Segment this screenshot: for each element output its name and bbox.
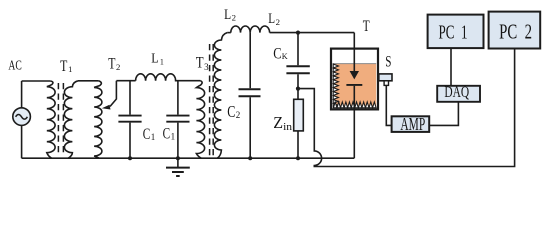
svg-text:AC: AC (8, 58, 21, 73)
AC source symbol (13, 108, 31, 126)
label L2 (first) (224, 7, 236, 23)
sensor S on chamber wall (379, 74, 392, 86)
amplifier AMP box (392, 114, 430, 134)
svg-text:PC 1: PC 1 (439, 22, 468, 44)
label T1 (60, 58, 72, 75)
svg-text:L: L (268, 11, 275, 27)
chamber T bottom heater zigzag (333, 102, 376, 108)
svg-text:T: T (60, 58, 68, 75)
svg-text:C: C (273, 45, 281, 62)
node: top rail junction (296, 30, 300, 34)
label L1 (151, 52, 164, 67)
transformer T3 primary winding (196, 81, 204, 159)
svg-text:1: 1 (160, 58, 164, 67)
capacitor C2 (239, 33, 261, 161)
svg-text:S: S (385, 53, 391, 70)
inductor L2 (first) (231, 26, 250, 33)
svg-text:L: L (151, 52, 158, 67)
ground symbol (166, 158, 190, 176)
transformer T1 primary winding (47, 81, 55, 158)
inductor L1 (136, 74, 201, 81)
wire: AMP to DAQ (429, 102, 458, 126)
capacitor C1 (second) (166, 81, 189, 161)
label CK (273, 45, 288, 62)
label T2 (108, 56, 120, 73)
transformer T1 secondary winding (64, 81, 78, 158)
DAQ box (437, 84, 480, 102)
node: CK / Zin junction (296, 87, 300, 91)
wire: plate electrode to bottom rail (353, 86, 355, 158)
thermostat chamber T (outer box) (331, 49, 378, 110)
transformer T1 core (dashed) (58, 83, 63, 156)
wire: AC source top and bottom leads (22, 81, 51, 158)
label T3 (196, 55, 209, 73)
label C1 (second) (163, 126, 176, 143)
transformer T3 secondary winding (tall) (214, 33, 227, 159)
label C1 (first) (143, 126, 156, 143)
svg-text:C: C (143, 126, 151, 143)
svg-text:1: 1 (68, 64, 72, 74)
inductor L2 (second) (250, 26, 269, 33)
wire: sensor S to AMP (386, 85, 391, 125)
wire: DAQ to PC1 (450, 48, 452, 86)
T2 variable tap wire with arrowhead (110, 81, 116, 107)
capacitor CK (286, 33, 309, 89)
svg-text:3: 3 (204, 62, 209, 72)
chamber T left heater zigzag (333, 64, 338, 107)
svg-text:1: 1 (151, 132, 156, 142)
svg-text:Z: Z (273, 113, 283, 132)
svg-text:K: K (282, 51, 289, 61)
svg-text:L: L (224, 7, 231, 23)
label C2 (227, 102, 240, 121)
svg-text:PC 2: PC 2 (499, 20, 532, 44)
wire: signal line from CK junction, crossover hop, to PC2 (298, 49, 515, 167)
impedance Zin (measuring box) (294, 89, 304, 161)
svg-text:2: 2 (232, 13, 236, 23)
label L2 (second) (268, 11, 280, 27)
PC1 box (428, 15, 484, 49)
svg-text:2: 2 (276, 17, 280, 27)
wire: bottom rail (common return bus) (22, 157, 355, 159)
svg-text:1: 1 (171, 132, 176, 142)
svg-text:2: 2 (116, 62, 120, 72)
svg-text:T: T (108, 56, 116, 73)
capacitor C1 (first) (118, 81, 141, 161)
plate electrode in chamber (346, 84, 362, 86)
needle electrode (arrow) in chamber (353, 33, 355, 72)
wire: top HV rail start (227, 32, 231, 34)
svg-text:C: C (163, 126, 171, 143)
wire: top HV rail to chamber (270, 32, 355, 34)
label Zin (273, 113, 293, 133)
svg-text:in: in (283, 122, 293, 133)
autotransformer T2 winding (94, 81, 102, 158)
svg-text:2: 2 (236, 110, 241, 120)
svg-text:AMP: AMP (400, 114, 425, 134)
svg-text:T: T (363, 18, 370, 35)
wire: T1 secondary to T2 (78, 80, 99, 82)
wire: tap rail into filter (116, 80, 135, 82)
chamber T bath (orange fill) (333, 64, 376, 108)
svg-text:DAQ: DAQ (444, 84, 469, 101)
transformer T3 core (dashed) (210, 44, 214, 156)
PC2 box (489, 12, 541, 49)
svg-text:T: T (196, 55, 204, 72)
svg-text:C: C (227, 102, 235, 121)
